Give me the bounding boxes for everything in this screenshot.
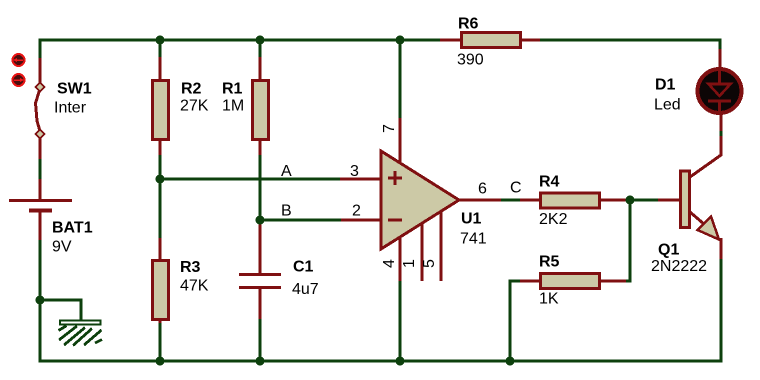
svg-text:47K: 47K [180, 278, 209, 295]
svg-text:R3: R3 [180, 259, 201, 276]
junction dot top bus pin7 [396, 36, 405, 45]
op-amp U1 pin 2 [341, 219, 382, 222]
transistor Q1 collector [690, 136, 721, 177]
battery BAT1 plate long [9, 199, 72, 202]
wire top bus left [40, 40, 440, 60]
resistor R1 pin bottom [259, 139, 262, 155]
svg-text:3: 3 [350, 163, 359, 180]
wire R5 right riser [625, 200, 630, 281]
svg-text:SW1: SW1 [57, 81, 92, 98]
resistor R5 pin right [600, 280, 626, 283]
switch SW1 terminal diamond top [36, 83, 45, 92]
op-amp U1 pin 3 [340, 178, 382, 181]
LED D1 pin bottom [720, 113, 723, 131]
wire node C junction to Q1 base [630, 199, 659, 202]
capacitor C1 pin bottom [259, 289, 262, 319]
switch SW1 pin bottom [39, 134, 42, 159]
wire R3 bottom stub [159, 322, 162, 361]
svg-text:B: B [281, 203, 292, 220]
LED D1 body circle [698, 69, 742, 113]
switch SW1 actuator button up [13, 54, 25, 66]
wire R1 bottom to node B [259, 154, 262, 220]
wire R5 left to bus [510, 281, 521, 361]
wire LED to Q1 collector stub [720, 130, 723, 136]
svg-text:6: 6 [478, 181, 487, 198]
wire SW1 bottom stub [39, 158, 42, 180]
svg-text:27K: 27K [180, 98, 209, 115]
junction dot bottom bus R3 [156, 357, 165, 366]
resistor R6 pin right [521, 39, 540, 42]
capacitor C1 plate top [239, 273, 281, 276]
wire ground stub [40, 300, 81, 320]
op-amp U1 body [381, 151, 459, 249]
wire emitter column [720, 258, 723, 363]
svg-text:C1: C1 [293, 259, 314, 276]
wire bottom bus [39, 360, 722, 363]
junction dot top bus R1 [256, 36, 265, 45]
wire op-amp pin4 to bus [399, 280, 402, 361]
op-amp U1 pin 5 [440, 211, 443, 281]
svg-text:Inter: Inter [54, 100, 87, 117]
battery BAT1 pin bottom [39, 212, 42, 240]
svg-text:7: 7 [381, 124, 398, 133]
resistor R3 body [153, 261, 169, 320]
svg-text:741: 741 [460, 231, 487, 248]
resistor R5 body [541, 274, 600, 289]
resistor R5 pin left [520, 280, 540, 283]
wire node A [160, 178, 341, 181]
svg-text:BAT1: BAT1 [52, 220, 93, 237]
svg-text:4u7: 4u7 [292, 281, 319, 298]
transistor Q1 emitter arrow [698, 217, 720, 240]
op-amp U1 minus marker [388, 219, 402, 222]
op-amp U1 pin 1 [421, 223, 424, 281]
resistor R2 pin top [159, 57, 162, 81]
battery BAT1 plate short [29, 209, 52, 213]
junction dot battery ground [36, 296, 45, 305]
svg-text:A: A [281, 163, 292, 180]
ground symbol [59, 321, 103, 346]
resistor R1 pin top [259, 57, 262, 81]
junction dot node A [156, 175, 165, 184]
svg-text:C: C [510, 180, 522, 197]
junction dot bottom bus pin4 [396, 357, 405, 366]
wire R2 bottom to node A [159, 154, 162, 179]
op-amp U1 plus marker [388, 171, 402, 185]
resistor R4 body [541, 193, 600, 208]
resistor R2 body [153, 81, 169, 140]
svg-text:R4: R4 [539, 174, 560, 191]
wire node A column to R3 [159, 179, 162, 239]
svg-text:2K2: 2K2 [539, 211, 568, 228]
svg-text:1: 1 [401, 259, 418, 268]
op-amp U1 pin 7 [399, 118, 402, 164]
resistor R4 pin left [520, 199, 540, 202]
svg-text:D1: D1 [655, 77, 676, 94]
svg-text:5: 5 [421, 259, 438, 268]
battery BAT1 pin top [39, 179, 42, 199]
svg-text:R2: R2 [181, 81, 202, 98]
capacitor C1 plate bottom [239, 286, 281, 289]
resistor R2 pin bottom [159, 139, 162, 155]
switch SW1 lever [36, 89, 41, 131]
svg-text:1M: 1M [222, 98, 244, 115]
resistor R4 pin right [600, 199, 626, 202]
op-amp U1 pin 6 [458, 199, 501, 202]
svg-text:Q1: Q1 [658, 242, 679, 259]
junction dot top bus R2 [156, 36, 165, 45]
wire top-right corner down [719, 39, 722, 51]
transistor Q1 emitter [690, 212, 712, 231]
switch SW1 actuator arrow right [14, 79, 22, 81]
resistor R6 body [462, 33, 521, 48]
wire R2 top stub [159, 40, 162, 58]
svg-text:U1: U1 [461, 211, 482, 228]
LED D1 triangle [709, 84, 731, 96]
junction dot node C R4-R5 [626, 196, 635, 205]
svg-text:9V: 9V [52, 239, 72, 256]
switch SW1 actuator button down [13, 74, 25, 86]
LED D1 pin top [719, 49, 722, 68]
svg-text:R5: R5 [539, 254, 560, 271]
svg-text:2N2222: 2N2222 [651, 258, 707, 275]
wire top bus right [540, 39, 720, 42]
wire node B [260, 219, 342, 222]
resistor R3 pin bottom [159, 319, 162, 323]
capacitor C1 pin top [259, 221, 262, 273]
junction dot node B [256, 216, 265, 225]
wire R1 top stub [259, 40, 262, 58]
op-amp U1 pin 4 [399, 236, 402, 281]
wire battery to bottom bus [39, 239, 42, 362]
resistor R3 pin top [159, 238, 162, 261]
svg-text:4: 4 [381, 259, 398, 268]
svg-text:R6: R6 [458, 16, 479, 33]
LED D1 cathode stem [718, 101, 721, 113]
LED D1 anode line [718, 69, 721, 84]
switch SW1 actuator arrow left [16, 59, 24, 61]
resistor R6 pin left [440, 39, 461, 42]
resistor R1 body [253, 81, 269, 140]
junction dot bottom bus C1 [256, 357, 265, 366]
svg-text:2: 2 [352, 203, 361, 220]
junction dot bottom bus R5 [506, 357, 515, 366]
svg-text:Led: Led [654, 97, 681, 114]
wire op-amp pin7 vertical [399, 40, 402, 119]
switch SW1 pin top [39, 58, 42, 84]
wire C1 bottom stub [259, 318, 262, 361]
LED D1 cathode bar [708, 100, 731, 103]
transistor Q1 bar [681, 171, 690, 228]
switch SW1 terminal diamond bottom [36, 130, 45, 139]
transistor Q1 emitter pin [720, 238, 723, 259]
transistor Q1 base pin [658, 199, 680, 202]
wire pin6 to R4 [501, 199, 521, 202]
svg-text:R1: R1 [222, 81, 243, 98]
svg-text:1K: 1K [539, 291, 559, 308]
svg-text:390: 390 [457, 52, 484, 69]
